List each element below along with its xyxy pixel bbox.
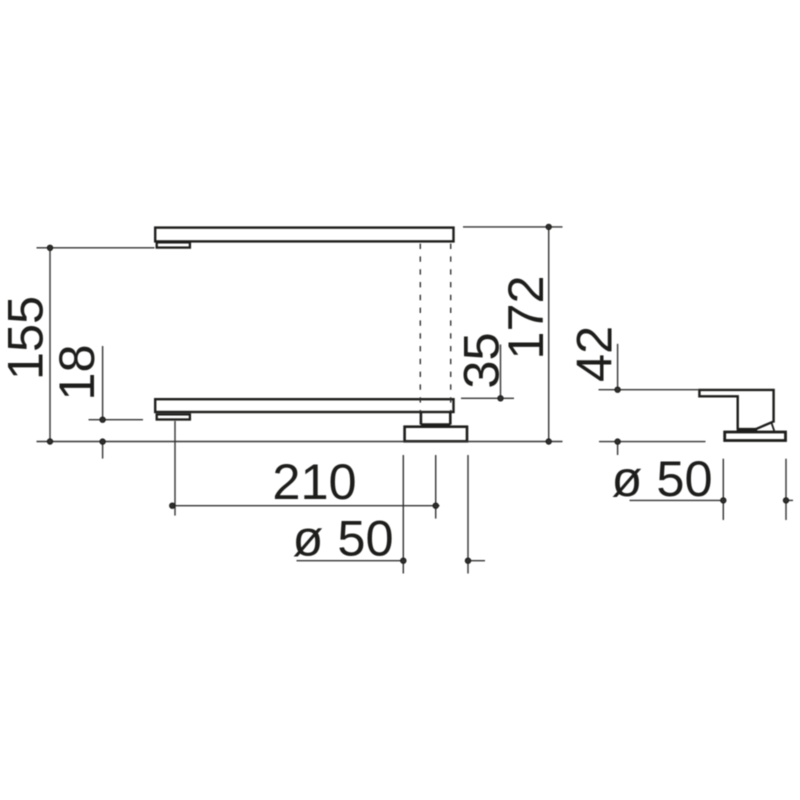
dimension dia50 side line left part: [630, 499, 724, 501]
dimension dia50 plan line left part: [297, 560, 404, 562]
dot dia50 side left: [721, 498, 726, 503]
svg-text:42: 42: [566, 326, 623, 382]
hidden post dashed line right: [450, 244, 452, 413]
dimension dia50 plan line right stub: [468, 560, 485, 562]
side-view clamp diagonal: [756, 422, 773, 429]
hidden post dashed line left: [419, 244, 421, 413]
base plate (plan view): [405, 427, 467, 442]
dimension 172 top extension line: [463, 226, 563, 228]
dot 155 bottom: [47, 439, 52, 444]
dimension dia50 plan right extension line: [467, 455, 469, 574]
svg-text:18: 18: [48, 344, 105, 400]
top rail (plan view): [155, 228, 453, 242]
dimension dia50 side line right stub: [786, 499, 793, 501]
top rail left lip: [157, 242, 190, 247]
dot 35: [498, 396, 503, 401]
dimension 18 line: [102, 346, 104, 420]
dot dia50 plan right: [465, 558, 470, 563]
dimension 155 line: [49, 248, 51, 442]
dot 155 top: [47, 245, 52, 250]
dot 18: [100, 417, 105, 422]
dimension 210 right extension line: [435, 455, 437, 519]
dimension 155 top extension line: [37, 247, 155, 249]
dimension 172 line: [548, 227, 550, 442]
dimension dia50 plan left extension line: [402, 455, 404, 574]
dimension dia50 side left extension line: [722, 459, 724, 520]
dot dia50 side right: [783, 498, 788, 503]
dimension 18 tick: [89, 419, 144, 421]
dimension dia50 side right extension line: [785, 459, 787, 520]
side-view baseline extension: [599, 441, 706, 443]
svg-text:ø 50: ø 50: [612, 450, 713, 507]
side-view base plate: [725, 432, 786, 441]
dot 42 bottom: [615, 439, 620, 444]
baseline extension (plan view): [37, 441, 563, 443]
dimension 35 extension tick: [461, 397, 514, 399]
dimension 42 top extension line: [599, 389, 699, 391]
bottom rail (plan view): [155, 399, 453, 412]
side-view clamp tip diagonal: [772, 423, 775, 431]
dimension 210 line: [172, 505, 440, 507]
dot 18 baseline: [100, 439, 105, 444]
dot 42 top: [615, 387, 620, 392]
dot 172 bottom: [546, 439, 551, 444]
dot 172 top: [546, 224, 551, 229]
dot dia50 plan left: [401, 558, 406, 563]
dot 210 left: [170, 503, 175, 508]
bottom rail left lip: [157, 414, 190, 419]
dimension 42 bottom tick: [617, 442, 619, 455]
svg-text:155: 155: [0, 296, 54, 380]
dot 210 right: [433, 503, 438, 508]
side-view bracket outline: [699, 390, 773, 429]
mounting post (plan view): [421, 412, 450, 424]
dimension 210 left extension line: [174, 421, 176, 516]
svg-text:ø 50: ø 50: [293, 510, 394, 567]
dimension 42 line: [617, 344, 619, 390]
dimension 18 baseline tick: [102, 442, 104, 459]
svg-text:210: 210: [272, 453, 356, 510]
svg-text:172: 172: [497, 275, 554, 359]
dimension 35 line: [500, 345, 502, 399]
side-view post foot strip: [737, 428, 758, 431]
